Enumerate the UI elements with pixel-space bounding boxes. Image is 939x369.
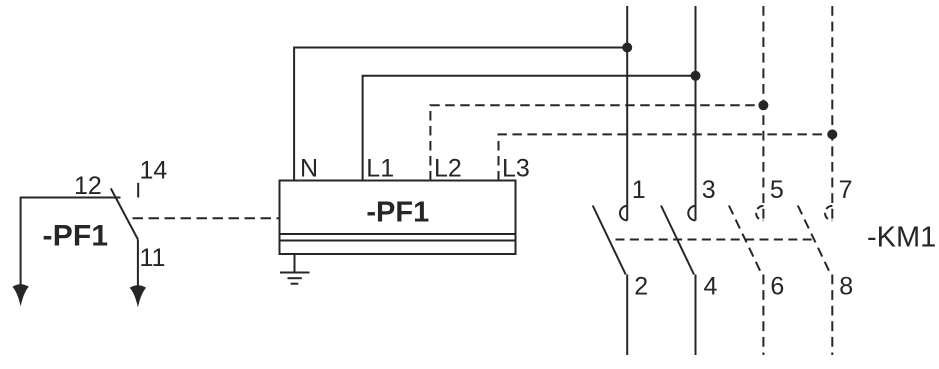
svg-text:1: 1 xyxy=(632,176,646,204)
mechanical linkage dashed xyxy=(616,239,815,241)
svg-text:7: 7 xyxy=(839,176,853,204)
svg-text:L1: L1 xyxy=(366,154,394,182)
pole 7-8 fixed contact arc dashed xyxy=(825,206,832,221)
wire N from box to phase line 1 xyxy=(294,48,627,181)
node junction dot on line 7 xyxy=(827,129,837,139)
svg-text:5: 5 xyxy=(770,176,784,204)
svg-text:-PF1: -PF1 xyxy=(366,196,429,228)
pole 3-4 blade xyxy=(661,206,694,275)
svg-text:L2: L2 xyxy=(434,154,462,182)
pole 3-4 lower wire xyxy=(695,275,697,356)
box internal line lower xyxy=(280,240,516,242)
wire L1 from box to phase line 3 xyxy=(363,76,696,181)
svg-text:L3: L3 xyxy=(502,154,530,182)
svg-text:-KM1: -KM1 xyxy=(867,222,936,254)
wire L2 dashed from box to phase line 5 xyxy=(430,105,763,180)
contactor KM1 pole 5-6 upper wire dashed xyxy=(762,6,764,220)
svg-text:8: 8 xyxy=(839,273,853,301)
switch blade -PF1 changeover contact xyxy=(111,188,138,239)
node junction dot on line 3 xyxy=(691,71,701,81)
arrow: terminal 11 arrowhead xyxy=(130,285,146,307)
ground xyxy=(280,254,310,284)
pole 7-8 blade dashed xyxy=(798,206,831,275)
wire: dashed control link from switch to -PF1 box xyxy=(133,217,281,219)
contactor KM1 pole 1-2 upper wire xyxy=(626,6,628,220)
contactor KM1 pole 3-4 upper wire xyxy=(695,6,697,220)
pole 1-2 fixed contact arc xyxy=(620,206,627,221)
svg-text:11: 11 xyxy=(140,244,166,272)
node junction dot on line 1 xyxy=(622,43,632,53)
device box -PF1 body xyxy=(280,181,516,255)
pole 5-6 lower wire dashed xyxy=(762,275,764,356)
svg-text:N: N xyxy=(300,154,318,182)
arrow: left lead arrowhead xyxy=(12,284,28,306)
box internal line upper xyxy=(280,233,516,235)
svg-text:-PF1: -PF1 xyxy=(43,220,109,253)
wire: left pole of aux switch (terminal 12 lead, down to arrow) xyxy=(21,198,121,290)
svg-text:14: 14 xyxy=(140,157,168,185)
svg-text:2: 2 xyxy=(634,273,648,301)
contactor KM1 pole 7-8 upper wire dashed xyxy=(831,6,833,220)
pole 5-6 fixed contact arc dashed xyxy=(756,206,763,221)
svg-text:4: 4 xyxy=(704,273,718,301)
wire L3 dashed from box to phase line 7 xyxy=(499,134,833,180)
pole 5-6 blade dashed xyxy=(729,206,762,275)
svg-text:6: 6 xyxy=(770,273,784,301)
svg-text:12: 12 xyxy=(74,172,102,200)
wire: terminal 11 lead down to arrow xyxy=(137,239,139,290)
node junction dot on line 5 xyxy=(758,100,768,110)
pole 3-4 fixed contact arc xyxy=(688,206,695,221)
pole 7-8 lower wire dashed xyxy=(831,275,833,356)
terminal 14 contact tick xyxy=(137,183,139,198)
pole 1-2 blade xyxy=(593,206,626,275)
svg-text:3: 3 xyxy=(702,176,716,204)
pole 1-2 lower wire xyxy=(626,275,628,356)
